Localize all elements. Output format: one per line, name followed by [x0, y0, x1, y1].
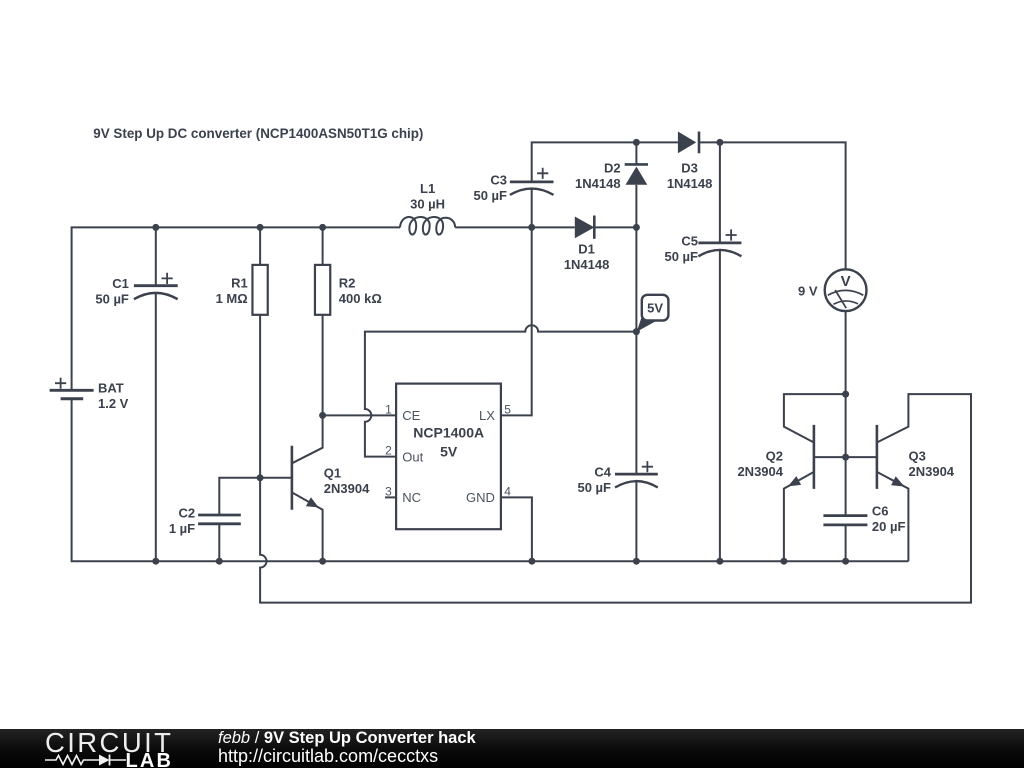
svg-text:1N4148: 1N4148 [564, 257, 610, 272]
svg-text:400 kΩ: 400 kΩ [339, 291, 382, 306]
svg-text:4: 4 [504, 484, 511, 498]
wire Out pin2 elbow with hops to 5V node [365, 325, 637, 456]
capacitor C6 plates [823, 516, 867, 525]
transistor Q2 emitter [784, 472, 814, 561]
svg-text:C1: C1 [112, 276, 129, 291]
svg-text:2N3904: 2N3904 [324, 481, 370, 496]
IC text labels [385, 403, 511, 506]
capacitor C4 plus sign [642, 461, 653, 472]
svg-text:BAT: BAT [98, 380, 124, 395]
svg-text:1N4148: 1N4148 [667, 176, 713, 191]
svg-text:C5: C5 [681, 233, 698, 248]
svg-text:D1: D1 [578, 242, 595, 257]
svg-text:1: 1 [385, 403, 392, 417]
resistor R2 lead top [322, 227, 324, 265]
wire base node down to C6 [845, 394, 847, 515]
svg-text:R1: R1 [231, 276, 248, 291]
capacitor C5 plates [698, 241, 741, 244]
diode D2 triangle [626, 167, 648, 185]
svg-text:C6: C6 [872, 503, 889, 518]
svg-text:9V Step Up DC converter (NCP14: 9V Step Up DC converter (NCP1400ASN50T1G… [93, 125, 423, 141]
capacitor C1 plates [134, 284, 178, 287]
capacitor C2 plates [198, 515, 241, 524]
wire D2 anode down through 5V node to C4 [635, 185, 637, 474]
transistor Q2 bar [813, 425, 816, 489]
capacitor C1 stem bottom [155, 293, 157, 561]
diode D1 bar [593, 216, 596, 239]
svg-text:C3: C3 [490, 172, 507, 187]
capacitor C4 plates [615, 473, 658, 476]
svg-text:NCP1400A: NCP1400A [413, 424, 484, 440]
wire Q1 base lead [260, 477, 292, 479]
svg-text:Out: Out [402, 449, 423, 464]
inductor L1 [400, 217, 455, 235]
wire R1 bottom through base node, hop over bottom rail, to lower rail, right edge, Q3 collector [260, 315, 971, 603]
svg-text:5V: 5V [440, 443, 458, 459]
diode D2 stem and bar [635, 142, 637, 164]
svg-text:D3: D3 [681, 160, 698, 175]
wire R2 bottom to Q1 collector [292, 315, 323, 464]
wire LX pin5 up to top rail, right to D3 [532, 142, 678, 182]
capacitor C3 plus sign [537, 168, 548, 179]
svg-text:V: V [841, 273, 851, 290]
capacitor C3 plates [510, 180, 554, 183]
voltmeter needle [835, 290, 846, 308]
op-amp U1 IC box NCP1400A [396, 384, 501, 530]
wire CE pin1 to R2 node [323, 414, 397, 416]
wire battery bottom to bottom rail [72, 399, 909, 561]
svg-text:Q2: Q2 [766, 448, 783, 463]
capacitor C6 stem bottom [845, 525, 847, 561]
svg-text:CE: CE [402, 408, 420, 423]
svg-text:50 µF: 50 µF [577, 480, 611, 495]
svg-text:9 V: 9 V [798, 284, 818, 299]
transistor Q1 emitter arrow [306, 497, 319, 507]
capacitor C5 stem bottom [719, 250, 721, 561]
battery BAT plus sign [55, 378, 66, 389]
transistor Q1 emitter [292, 492, 323, 561]
capacitor C1 plus sign [162, 273, 173, 284]
wire GND pin4 down to bottom rail [501, 497, 532, 561]
capacitor C2 stem bottom [218, 524, 220, 561]
resistor R1 leads [259, 227, 261, 265]
node 5V flag [637, 295, 669, 332]
svg-text:C4: C4 [594, 465, 611, 480]
svg-text:30 µH: 30 µH [410, 196, 445, 211]
svg-text:50 µF: 50 µF [95, 292, 129, 307]
svg-text:C2: C2 [178, 506, 195, 521]
capacitor C1 stem top [155, 227, 157, 285]
transistor Q1 bar [291, 446, 294, 510]
svg-text:50 µF: 50 µF [473, 188, 507, 203]
capacitor C4 stem bottom [635, 481, 637, 561]
svg-text:R2: R2 [339, 276, 356, 291]
svg-text:1 µF: 1 µF [169, 521, 195, 536]
svg-text:L1: L1 [420, 181, 435, 196]
svg-text:Q3: Q3 [909, 448, 926, 463]
svg-text:2: 2 [385, 444, 392, 458]
capacitor C5 stem [719, 142, 721, 243]
CircuitLab logo [45, 727, 173, 759]
footer bar [0, 729, 1024, 768]
wire voltmeter bottom to node [845, 311, 847, 394]
resistor R1 body [252, 265, 267, 315]
svg-text:5V: 5V [647, 301, 663, 316]
svg-text:NC: NC [402, 490, 421, 505]
transistor Q3 emitter [877, 472, 909, 561]
junction dots [152, 224, 159, 231]
svg-text:1N4148: 1N4148 [575, 176, 621, 191]
svg-text:GND: GND [466, 490, 495, 505]
diode D3 bar [698, 132, 701, 154]
wire Q2 base to Q3 base [814, 456, 877, 458]
svg-text:2N3904: 2N3904 [909, 464, 955, 479]
resistor R2 body [315, 265, 330, 315]
svg-text:3: 3 [385, 484, 392, 498]
wire D1 cathode to node B [594, 226, 636, 228]
svg-text:LX: LX [479, 408, 495, 423]
svg-text:1.2 V: 1.2 V [98, 396, 129, 411]
svg-text:Q1: Q1 [324, 465, 341, 480]
wire L1 to D1 [455, 226, 575, 228]
wire Q2 collector to voltmeter node [784, 394, 846, 442]
transistor Q3 bar [876, 425, 879, 489]
capacitor C5 plus sign [726, 229, 737, 240]
pin 3 NC stub [385, 496, 396, 498]
svg-text:1 MΩ: 1 MΩ [216, 291, 248, 306]
svg-text:50 µF: 50 µF [664, 249, 698, 264]
svg-text:2N3904: 2N3904 [737, 464, 783, 479]
wire D3 cathode to voltmeter [699, 142, 846, 269]
svg-text:5: 5 [504, 403, 511, 417]
battery BAT plates [50, 389, 94, 392]
transistor Q3 emitter arrow [891, 476, 904, 486]
svg-text:D2: D2 [604, 160, 621, 175]
capacitor C2 elbow to base node [219, 478, 260, 515]
transistor Q2 emitter arrow [788, 476, 801, 486]
voltmeter V1 circle [825, 269, 867, 311]
voltmeter gauge arcs [828, 290, 864, 295]
svg-text:20 µF: 20 µF [872, 519, 906, 534]
diode D1 triangle [575, 217, 595, 239]
logo squiggle resistor+diode [45, 756, 126, 765]
diode D3 triangle [678, 132, 696, 154]
wire top rail left + left vertical to battery [72, 227, 400, 389]
